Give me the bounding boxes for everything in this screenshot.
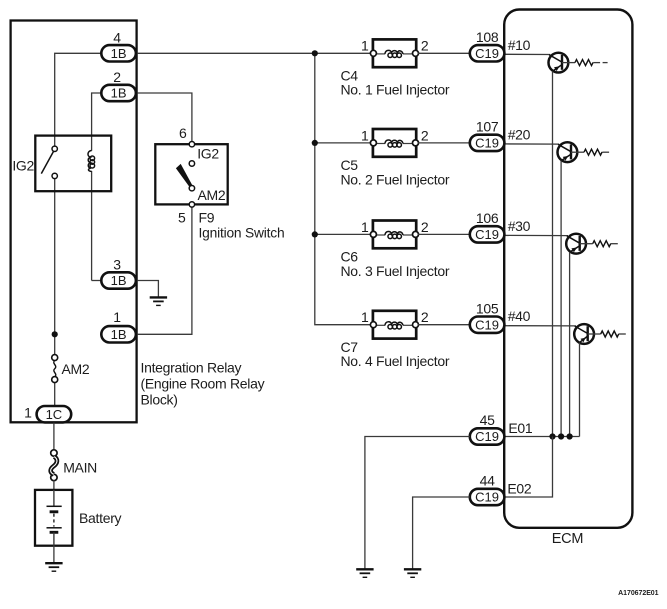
relay IG2 box — [35, 136, 111, 192]
ECM box outline — [504, 10, 632, 528]
svg-text:No. 4 Fuel Injector: No. 4 Fuel Injector — [341, 353, 450, 369]
wire MAIN to battery — [53, 480, 55, 490]
svg-text:E01: E01 — [508, 420, 533, 436]
wire Q1 emitter to E01 bus — [552, 71, 554, 436]
wire trunk feeding injectors — [315, 53, 374, 324]
injector C5 (No. 2 Fuel Injector) — [370, 129, 418, 157]
wire injector C6 to C19 — [418, 233, 470, 235]
svg-text:6: 6 — [179, 125, 187, 141]
wire ignition pin5 to pin1 1B — [136, 207, 192, 334]
transistor Q4 — [574, 324, 601, 344]
wire pin4 1B to relay switch — [55, 53, 102, 146]
svg-text:1: 1 — [361, 127, 369, 143]
svg-text:E02: E02 — [507, 481, 532, 497]
svg-text:45: 45 — [480, 412, 495, 428]
connector C19 pin 106 — [470, 226, 505, 242]
wire Q4 emitter to E01 bus — [579, 343, 581, 437]
transistor Q1 — [549, 53, 576, 73]
transistor Q2 — [558, 142, 585, 162]
ignition switch IG2 contact — [189, 161, 194, 166]
svg-text:Block): Block) — [141, 392, 178, 408]
wire pin2 1B to coil to pin3 1B — [92, 93, 102, 151]
node pin1 junction — [52, 331, 58, 337]
label Integration Relay — [141, 359, 265, 407]
wire Q3 emitter to E01 bus — [569, 252, 571, 436]
node trunk row1 — [312, 50, 318, 56]
wire injector C7 to C19 — [418, 324, 470, 326]
svg-text:AM2: AM2 — [198, 187, 226, 203]
svg-text:Integration Relay: Integration Relay — [141, 359, 242, 375]
svg-text:No. 2 Fuel Injector: No. 2 Fuel Injector — [341, 171, 450, 187]
svg-text:#40: #40 — [508, 308, 531, 324]
svg-text:AM2: AM2 — [62, 361, 90, 377]
wire C19 to transistor Q3 base — [504, 234, 568, 236]
svg-text:ECM: ECM — [552, 531, 583, 547]
svg-text:F9: F9 — [199, 209, 215, 225]
wire battery to ground — [53, 546, 55, 563]
resistor R3 (Q3 collector load) — [593, 241, 618, 247]
connector C19 pin 45 (E01) — [470, 428, 505, 444]
battery cells — [47, 490, 62, 546]
svg-text:2: 2 — [421, 309, 429, 325]
integration relay block outline — [11, 21, 137, 423]
svg-text:No. 3 Fuel Injector: No. 3 Fuel Injector — [341, 263, 450, 279]
connector C19 pin 44 (E02) — [470, 489, 505, 505]
fuse AM2 — [52, 355, 58, 383]
svg-text:IG2: IG2 — [197, 146, 219, 162]
wire 1C to MAIN fuse — [53, 423, 55, 451]
svg-text:(Engine Room Relay: (Engine Room Relay — [141, 376, 265, 392]
svg-text:IG2: IG2 — [12, 158, 34, 174]
svg-text:105: 105 — [476, 300, 499, 316]
relay switch blade — [41, 152, 53, 174]
svg-text:1: 1 — [24, 405, 32, 421]
svg-text:C19: C19 — [475, 136, 499, 151]
injector C4 (No. 1 Fuel Injector) — [370, 39, 418, 67]
transistor Q3 — [566, 234, 593, 254]
injector C6 (No. 3 Fuel Injector) — [370, 221, 418, 249]
svg-text:1B: 1B — [111, 327, 127, 342]
svg-text:Ignition Switch: Ignition Switch — [199, 225, 285, 240]
node E01-Q2 — [558, 433, 564, 439]
svg-text:C19: C19 — [475, 227, 499, 242]
node E01-Q3 — [567, 433, 573, 439]
ignition switch lever — [176, 164, 193, 187]
svg-text:#10: #10 — [508, 37, 531, 53]
svg-text:#30: #30 — [508, 218, 531, 234]
svg-text:5: 5 — [178, 209, 186, 225]
svg-text:1: 1 — [113, 309, 121, 325]
ignition switch pin 5 contact — [189, 202, 194, 207]
connector C19 pin 107 — [470, 135, 505, 151]
ground at pin3 — [150, 296, 167, 298]
resistor R2 (Q2 collector load) — [584, 149, 609, 155]
wire injector C4 to C19 — [418, 52, 470, 54]
connector 1B pin 2 — [101, 85, 136, 101]
fuse MAIN — [51, 450, 57, 481]
svg-text:1B: 1B — [111, 86, 127, 101]
wire Q2 emitter to E01 bus — [560, 161, 562, 437]
svg-text:1B: 1B — [111, 46, 127, 61]
connector 1B pin 1 — [101, 326, 136, 342]
battery box — [35, 490, 72, 546]
svg-text:1C: 1C — [46, 407, 63, 422]
svg-text:1: 1 — [361, 219, 369, 235]
wire C19 to transistor Q1 base — [504, 53, 550, 55]
svg-text:44: 44 — [480, 473, 495, 489]
wire E02 to ground — [413, 497, 470, 569]
wire pin2 1B to ignition switch pin6 — [136, 93, 192, 141]
ground E01 — [356, 568, 373, 570]
node E01-Q1 — [549, 433, 555, 439]
svg-text:2: 2 — [113, 69, 121, 85]
resistor R4 (Q4 collector load) — [601, 331, 626, 337]
svg-text:1: 1 — [361, 309, 369, 325]
svg-text:1B: 1B — [111, 273, 127, 288]
relay coil — [88, 151, 95, 172]
wire relay switch to AM2 fuse — [54, 179, 56, 355]
svg-text:C19: C19 — [475, 46, 499, 61]
resistor R1 (Q1 collector load) — [575, 60, 608, 66]
svg-text:3: 3 — [113, 257, 121, 273]
connector 1B pin 4 — [101, 45, 136, 61]
svg-text:Battery: Battery — [79, 510, 122, 526]
svg-text:C19: C19 — [475, 317, 499, 332]
wire injector C5 to C19 — [418, 142, 470, 144]
svg-text:4: 4 — [113, 29, 121, 45]
ignition switch box F9 — [155, 144, 227, 204]
svg-text:MAIN: MAIN — [63, 459, 97, 475]
wire E01 to ground — [365, 437, 470, 570]
wire C19 to transistor Q4 base — [504, 325, 576, 327]
svg-text:1: 1 — [361, 38, 369, 54]
injector C7 (No. 4 Fuel Injector) — [370, 311, 418, 339]
wire E02 internal to E01 node — [504, 437, 552, 498]
wire pin3 1B to ground — [136, 281, 159, 298]
svg-text:2: 2 — [421, 219, 429, 235]
ground E02 — [404, 568, 421, 570]
svg-text:2: 2 — [421, 127, 429, 143]
svg-text:108: 108 — [476, 29, 499, 45]
wire trunk to injector C5 — [315, 142, 374, 144]
wire pin4 1B to injector C4 (main feed) — [136, 52, 374, 54]
wire E01 bus — [504, 436, 579, 438]
svg-text:No. 1 Fuel Injector: No. 1 Fuel Injector — [341, 82, 450, 98]
connector 1C pin 1 — [37, 406, 72, 422]
node trunk row2 — [312, 140, 318, 146]
ground at battery — [45, 562, 62, 564]
node trunk row3 — [312, 231, 318, 237]
svg-text:106: 106 — [476, 210, 499, 226]
wire C19 to transistor Q2 base — [504, 143, 559, 145]
svg-text:2: 2 — [421, 38, 429, 54]
wire trunk to injector C6 — [315, 233, 374, 235]
ignition switch pin 6 contact — [189, 142, 194, 147]
connector 1B pin 3 — [101, 272, 136, 288]
wire AM2 fuse to 1C — [54, 382, 56, 405]
svg-text:#20: #20 — [508, 126, 531, 142]
ignition switch AM2 contact — [189, 186, 194, 191]
svg-text:A170672E01: A170672E01 — [618, 590, 659, 597]
connector C19 pin 105 — [470, 317, 505, 333]
svg-text:C19: C19 — [475, 429, 499, 444]
relay switch contacts — [52, 146, 57, 178]
svg-text:C19: C19 — [475, 490, 499, 505]
connector C19 pin 108 — [470, 45, 505, 61]
svg-text:107: 107 — [476, 119, 499, 135]
